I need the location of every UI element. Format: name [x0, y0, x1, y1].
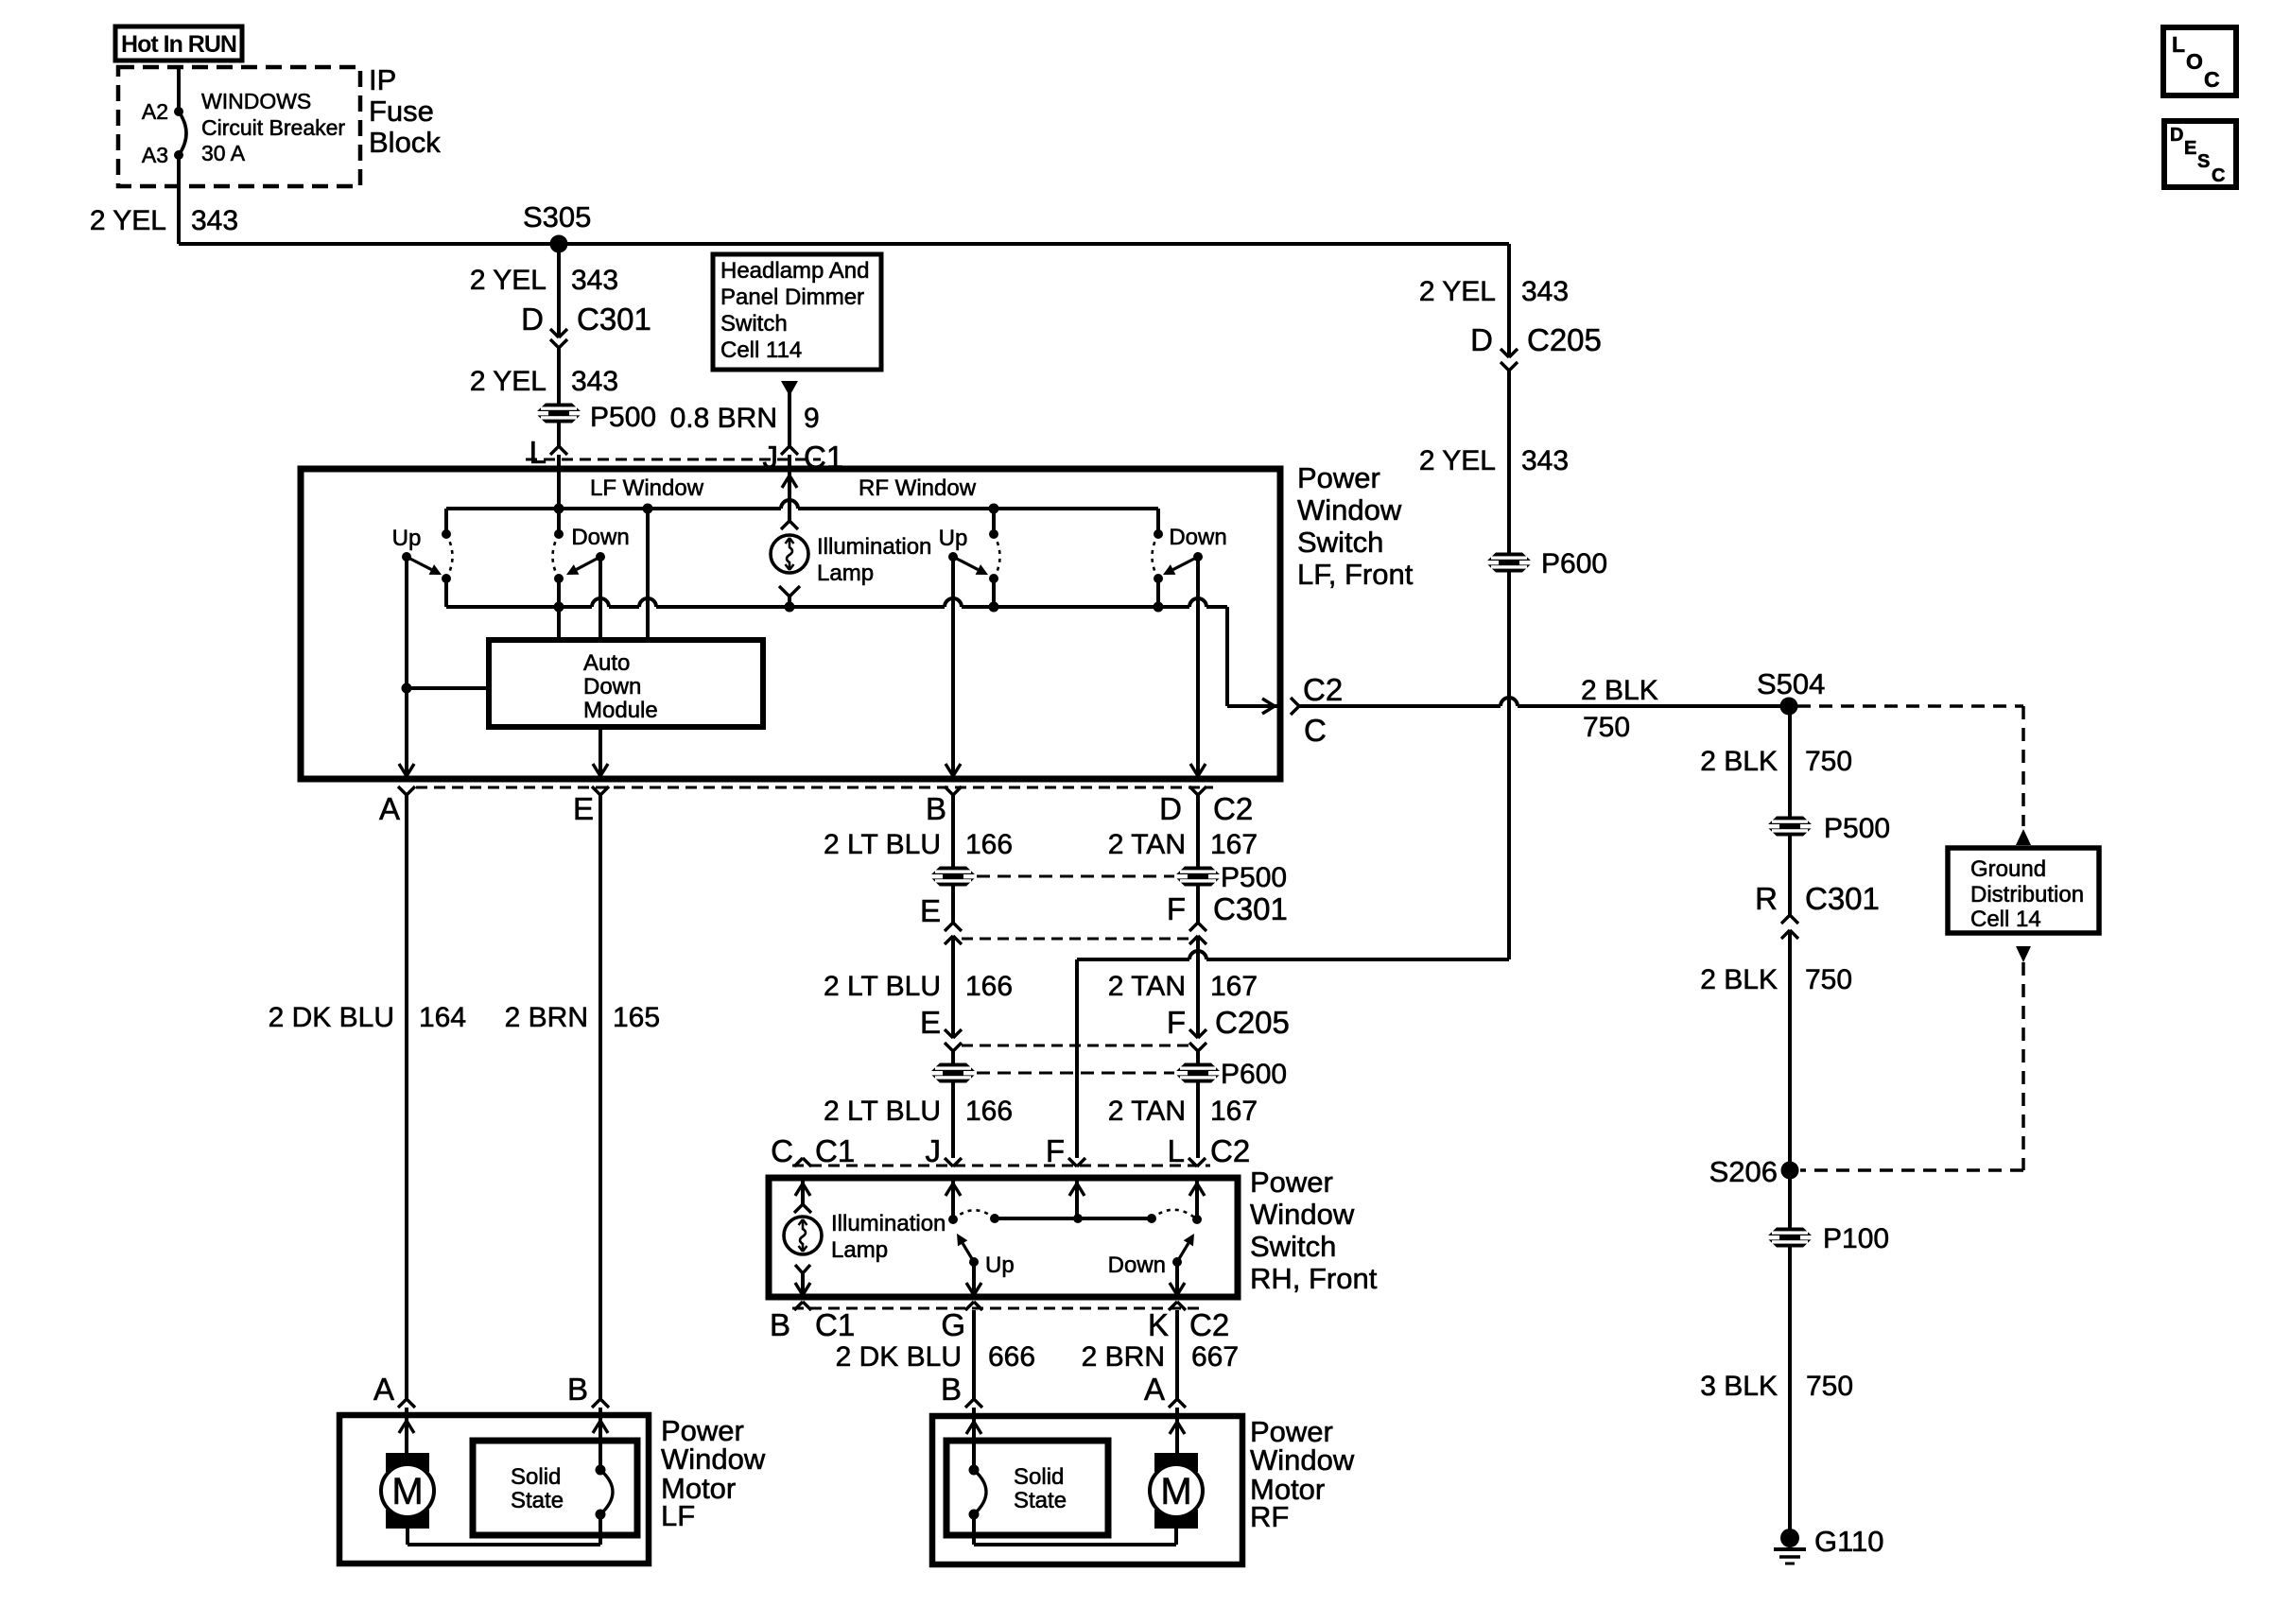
- lower rail inside LF switch: [446, 598, 1227, 613]
- Power Window Motor LF box: [339, 1415, 649, 1564]
- Power Window Switch LF Front box: [301, 469, 1280, 779]
- return wire inside RF motor box: [974, 1543, 1176, 1546]
- svg-text:30 A: 30 A: [201, 141, 246, 165]
- svg-text:Illumination: Illumination: [831, 1211, 946, 1236]
- upper feed rail inside LF switch: [446, 500, 1158, 535]
- arrow into box at pin J: [782, 475, 789, 488]
- svg-text:750: 750: [1805, 964, 1852, 995]
- svg-text:S305: S305: [523, 200, 591, 233]
- svg-text:2 TAN: 2 TAN: [1108, 1096, 1186, 1127]
- connector C301 pin D (in-line): [521, 302, 651, 348]
- svg-text:S: S: [2197, 151, 2210, 172]
- svg-text:D: D: [1159, 791, 1182, 826]
- node S206 splice: [1709, 1155, 1799, 1188]
- svg-text:Down: Down: [1108, 1253, 1166, 1278]
- wire pin B inside LF switch: [946, 557, 961, 779]
- IP Fuse Block label: [369, 63, 441, 159]
- pin C fork connector C1 of RH switch: [771, 1133, 855, 1168]
- svg-text:Circuit Breaker: Circuit Breaker: [201, 115, 345, 140]
- svg-text:C2: C2: [1189, 1307, 1229, 1342]
- svg-text:Lamp: Lamp: [831, 1237, 888, 1263]
- svg-text:Distribution: Distribution: [1970, 882, 2084, 907]
- Auto Down Module box: [489, 640, 763, 727]
- svg-text:F: F: [1167, 1005, 1186, 1040]
- switch RF-window Down (in LF switch): [1153, 525, 1227, 607]
- svg-text:343: 343: [571, 265, 618, 296]
- svg-text:Illumination: Illumination: [817, 534, 931, 560]
- svg-text:Module: Module: [583, 698, 658, 723]
- svg-text:P500: P500: [1824, 813, 1890, 844]
- svg-text:IP: IP: [369, 63, 396, 96]
- svg-text:2 LT BLU: 2 LT BLU: [824, 829, 941, 860]
- svg-text:Solid: Solid: [1014, 1464, 1064, 1490]
- svg-text:Hot In RUN: Hot In RUN: [121, 31, 236, 58]
- switch LF-window Up: [392, 526, 453, 607]
- wire 2 DK BLU 164 from pin A to LF motor: [269, 795, 466, 1399]
- grommet P500 left: [534, 402, 656, 433]
- connector C205 pins E and F (in-line): [920, 1005, 1290, 1051]
- svg-text:167: 167: [1210, 829, 1258, 860]
- svg-text:2 BRN: 2 BRN: [505, 1002, 588, 1033]
- label Power Window Switch RH, Front: [1250, 1166, 1378, 1295]
- wire to P500 grommet, 2 YEL 343: [470, 348, 618, 446]
- connector C2 pin C fork at LF switch right: [1291, 672, 1343, 748]
- grommet P600 right chain: [1484, 548, 1607, 579]
- pin L fork connector C2 of RH switch: [1168, 1133, 1251, 1168]
- dashed connector boundary below LF switch: [416, 786, 1213, 789]
- svg-text:2 BRN: 2 BRN: [1082, 1341, 1165, 1373]
- svg-text:E: E: [920, 893, 941, 928]
- svg-text:P100: P100: [1823, 1223, 1889, 1254]
- arrows into RF motor box: [966, 1422, 1185, 1434]
- svg-text:343: 343: [1521, 276, 1569, 307]
- node S305 splice: [523, 200, 591, 253]
- svg-text:O: O: [2186, 49, 2203, 74]
- pin J fork of RH switch: [926, 1133, 963, 1168]
- svg-text:F: F: [1046, 1133, 1065, 1168]
- illumination lamp RH switch: [784, 1178, 946, 1297]
- svg-text:WINDOWS: WINDOWS: [201, 89, 311, 113]
- svg-text:C: C: [2212, 165, 2225, 186]
- Headlamp And Panel Dimmer Switch box: [713, 254, 881, 370]
- svg-text:C301: C301: [1805, 881, 1880, 916]
- svg-text:State: State: [511, 1488, 564, 1513]
- svg-text:Window: Window: [1297, 493, 1402, 527]
- Power Window Motor RF box: [932, 1416, 1242, 1564]
- svg-text:750: 750: [1583, 712, 1630, 743]
- svg-text:C: C: [771, 1133, 793, 1168]
- svg-text:2 YEL: 2 YEL: [1419, 276, 1496, 307]
- wire from circuit breaker to S305 splice, label 2 YEL 343: [90, 155, 1509, 244]
- svg-text:A: A: [379, 791, 400, 826]
- wire 2 BLK 750 from LF switch C2 to S504: [1299, 675, 1789, 743]
- wire 2 BRN 667 pin K to RF motor: [1082, 1310, 1239, 1399]
- switch Up RH: [948, 1210, 1015, 1297]
- wire 2 TAN 167 mid segment: [1108, 936, 1258, 1038]
- svg-text:K: K: [1148, 1307, 1169, 1342]
- svg-text:C2: C2: [1210, 1133, 1250, 1168]
- svg-text:Down: Down: [571, 525, 629, 550]
- circuit breaker WINDOWS 30A: [142, 67, 346, 167]
- svg-text:343: 343: [571, 366, 618, 397]
- svg-text:Window: Window: [661, 1443, 766, 1476]
- svg-text:2 BLK: 2 BLK: [1700, 964, 1778, 995]
- pin A fork and label: [379, 786, 415, 826]
- return wire inside LF motor box: [408, 1543, 600, 1546]
- solid state module LF: [473, 1441, 637, 1545]
- svg-text:Ground: Ground: [1970, 856, 2046, 882]
- connector C301 pins E and F (in-line): [920, 891, 1288, 944]
- svg-text:M: M: [391, 1471, 423, 1512]
- svg-text:B: B: [926, 791, 946, 826]
- svg-text:Solid: Solid: [511, 1464, 561, 1490]
- svg-text:750: 750: [1806, 1371, 1853, 1402]
- svg-text:J: J: [926, 1133, 942, 1168]
- svg-text:343: 343: [191, 205, 238, 236]
- motor M LF: [381, 1453, 434, 1545]
- LOC reference box: [2163, 27, 2236, 95]
- wire S305 down, 2 YEL 343: [470, 244, 618, 337]
- pin K fork connector C2 below RH switch: [1148, 1302, 1229, 1342]
- pin B fork of LF motor: [567, 1372, 609, 1470]
- svg-text:R: R: [1755, 881, 1778, 916]
- svg-text:667: 667: [1191, 1341, 1239, 1373]
- dashed connector boundary above RH switch: [792, 1165, 1210, 1167]
- grommet P100: [1765, 1223, 1889, 1254]
- label 3 BLK 750: [1700, 1371, 1853, 1402]
- svg-text:G110: G110: [1814, 1525, 1884, 1558]
- svg-text:2 LT BLU: 2 LT BLU: [824, 1096, 941, 1127]
- wire 2 BLK 750 to S206: [1700, 930, 1852, 1170]
- svg-text:Window: Window: [1250, 1443, 1355, 1477]
- svg-text:C2: C2: [1213, 791, 1253, 826]
- svg-text:State: State: [1014, 1488, 1067, 1513]
- wire 2 BRN 165 from pin E to LF motor: [505, 795, 660, 1399]
- wire pin L to Down contact RH: [1189, 1178, 1205, 1219]
- wire to P100: [1788, 1170, 1792, 1538]
- svg-text:D: D: [521, 302, 544, 337]
- svg-text:167: 167: [1210, 971, 1258, 1002]
- node S504 splice: [1757, 667, 1825, 716]
- pin E fork and label: [573, 786, 609, 826]
- ground G110: [1774, 1525, 1884, 1564]
- svg-text:RF: RF: [1250, 1500, 1289, 1533]
- svg-text:A2: A2: [142, 99, 168, 124]
- svg-text:S206: S206: [1709, 1155, 1778, 1188]
- solid state module RF: [946, 1441, 1108, 1545]
- svg-text:M: M: [1160, 1471, 1191, 1512]
- svg-text:B: B: [941, 1372, 962, 1407]
- svg-text:Down: Down: [1169, 525, 1226, 550]
- svg-text:F: F: [1167, 891, 1186, 926]
- pin G fork below RH switch: [941, 1302, 982, 1342]
- wire 2 YEL 343 to P600: [1419, 371, 1569, 959]
- svg-text:P500: P500: [590, 402, 656, 433]
- switch RF-window Up (in LF switch): [939, 526, 1000, 607]
- wire from yellow chain to RH switch pin F: [1077, 951, 1509, 1158]
- svg-text:Switch: Switch: [720, 311, 788, 337]
- pin B fork of RF motor: [941, 1372, 982, 1470]
- svg-text:Cell 114: Cell 114: [720, 337, 802, 363]
- svg-text:A: A: [1144, 1372, 1165, 1407]
- wire 2 YEL 343 right branch from S305: [1419, 244, 1569, 357]
- svg-text:166: 166: [965, 829, 1013, 860]
- svg-text:2 BLK: 2 BLK: [1700, 746, 1778, 777]
- svg-text:Window: Window: [1250, 1198, 1355, 1231]
- svg-text:C301: C301: [1213, 891, 1288, 926]
- svg-text:2 BLK: 2 BLK: [1581, 675, 1658, 706]
- svg-text:B: B: [770, 1307, 790, 1342]
- svg-text:2 DK BLU: 2 DK BLU: [269, 1002, 394, 1033]
- svg-text:S504: S504: [1757, 667, 1825, 700]
- svg-text:Up: Up: [985, 1253, 1015, 1278]
- label Power Window Motor LF: [661, 1414, 766, 1532]
- svg-text:2 YEL: 2 YEL: [470, 366, 547, 397]
- dashed link S504 to Ground Distribution: [1797, 706, 2031, 845]
- wire 2 DK BLU 666 pin G to RF motor: [836, 1310, 1035, 1399]
- svg-text:Switch: Switch: [1250, 1230, 1336, 1263]
- svg-text:D: D: [1470, 322, 1493, 357]
- svg-text:Power: Power: [1250, 1166, 1333, 1199]
- wire pin J to Up contact RH: [946, 1178, 961, 1219]
- svg-text:L: L: [1168, 1133, 1185, 1168]
- svg-text:L: L: [2172, 32, 2185, 57]
- svg-text:LF, Front: LF, Front: [1297, 558, 1414, 591]
- IP Fuse Block dashed outline: [118, 67, 360, 186]
- svg-text:2 YEL: 2 YEL: [1419, 445, 1496, 476]
- svg-text:P600: P600: [1221, 1059, 1287, 1090]
- wire pin A from Up switch through box bottom: [399, 557, 489, 779]
- svg-text:E: E: [2184, 138, 2196, 159]
- svg-text:B: B: [567, 1372, 588, 1407]
- svg-text:C: C: [2204, 67, 2220, 92]
- pin A fork of LF motor: [373, 1372, 415, 1456]
- svg-text:165: 165: [613, 1002, 660, 1033]
- dashed link Ground Distribution to S206: [1800, 946, 2031, 1170]
- svg-text:C2: C2: [1303, 672, 1343, 707]
- svg-text:C205: C205: [1215, 1005, 1290, 1040]
- Hot In RUN feed label box: [115, 26, 242, 60]
- svg-text:Lamp: Lamp: [817, 561, 874, 586]
- pin D fork and label, connector C2: [1159, 786, 1253, 826]
- svg-text:Power: Power: [1297, 461, 1380, 494]
- svg-text:P600: P600: [1541, 548, 1607, 579]
- wire from dimmer switch, 0.8 BRN 9: [670, 381, 820, 446]
- svg-text:E: E: [920, 1005, 941, 1040]
- svg-text:C205: C205: [1527, 322, 1602, 357]
- switch LF-window Down: [553, 525, 630, 607]
- dashed connector C1 boundary at LF switch top: [526, 458, 821, 461]
- svg-text:2 DK BLU: 2 DK BLU: [836, 1341, 962, 1373]
- svg-text:C1: C1: [815, 1133, 855, 1168]
- connector C301 pin R (in-line): [1755, 881, 1880, 939]
- svg-text:Switch: Switch: [1297, 526, 1383, 559]
- wire to C2 pin C exit of LF switch: [1227, 607, 1280, 714]
- svg-text:Cell 14: Cell 14: [1970, 907, 2041, 932]
- pin L of LF switch connector C1: [529, 435, 567, 509]
- svg-text:LF: LF: [661, 1499, 695, 1532]
- svg-text:L: L: [529, 435, 547, 470]
- label Power Window Motor RF: [1250, 1415, 1355, 1533]
- svg-text:2 YEL: 2 YEL: [470, 265, 547, 296]
- Power Window Switch RH Front box: [769, 1178, 1238, 1297]
- svg-text:2 TAN: 2 TAN: [1108, 971, 1186, 1002]
- svg-text:E: E: [573, 791, 594, 826]
- svg-text:LF Window: LF Window: [590, 475, 704, 501]
- pin J of LF switch connector C1: [763, 440, 844, 521]
- pin B fork and label: [926, 786, 962, 826]
- svg-text:Up: Up: [392, 526, 422, 551]
- wire pin D inside LF switch: [1190, 557, 1206, 779]
- wire 2 LT BLU 166 pin B down: [824, 795, 1013, 923]
- svg-text:164: 164: [419, 1002, 466, 1033]
- svg-text:Panel Dimmer: Panel Dimmer: [720, 285, 864, 310]
- connector C205 pin D (in-line right): [1470, 322, 1602, 371]
- label Power Window Switch LF, Front: [1297, 461, 1414, 591]
- svg-text:A: A: [373, 1372, 394, 1407]
- wire pin E from Auto Down Module: [593, 727, 608, 779]
- labels 2 LT BLU 166 and 2 TAN 167 lower segment: [824, 1096, 1258, 1127]
- svg-text:D: D: [2170, 125, 2183, 146]
- svg-text:Block: Block: [369, 126, 441, 159]
- common bar RH switch: [990, 1214, 1156, 1223]
- svg-text:G: G: [941, 1307, 965, 1342]
- svg-text:343: 343: [1521, 445, 1569, 476]
- svg-text:0.8 BRN: 0.8 BRN: [670, 403, 777, 434]
- pin F fork of RH switch: [1046, 1133, 1085, 1168]
- svg-text:A3: A3: [142, 143, 168, 167]
- svg-text:Down: Down: [583, 674, 641, 700]
- wire 2 TAN 167 pin D down: [1108, 795, 1258, 923]
- svg-text:RF Window: RF Window: [859, 475, 977, 501]
- grommet P600 pair on B and D wires: [928, 1051, 1287, 1158]
- illumination lamp LF switch: [771, 521, 931, 608]
- svg-text:RH, Front: RH, Front: [1250, 1262, 1378, 1295]
- svg-text:167: 167: [1210, 1096, 1258, 1127]
- grommet P500 right chain: [1765, 813, 1890, 844]
- wire 2 LT BLU 166 mid segment: [824, 936, 1013, 1038]
- switch Down RH: [1108, 1210, 1202, 1297]
- svg-text:P500: P500: [1221, 862, 1287, 893]
- svg-text:2 YEL: 2 YEL: [90, 205, 166, 236]
- pin B fork connector C1 below RH switch: [770, 1302, 855, 1342]
- svg-text:Up: Up: [939, 526, 968, 551]
- motor M RF: [1150, 1453, 1203, 1545]
- svg-text:666: 666: [988, 1341, 1035, 1373]
- wire pin F to common bar RH: [1069, 1178, 1084, 1218]
- svg-text:C301: C301: [577, 302, 651, 337]
- DESC reference box: [2164, 121, 2236, 187]
- pin A fork of RF motor: [1144, 1372, 1186, 1456]
- wire 2 BLK 750 S504 down: [1700, 706, 1852, 915]
- dashed connector boundary below RH switch: [792, 1307, 1201, 1310]
- svg-text:C: C: [1304, 713, 1327, 748]
- svg-text:Headlamp And: Headlamp And: [720, 258, 869, 284]
- svg-text:2 TAN: 2 TAN: [1108, 829, 1186, 860]
- Ground Distribution Cell 14 box: [1948, 848, 2099, 933]
- wires into Auto Down Module: [559, 509, 648, 640]
- svg-text:750: 750: [1805, 746, 1852, 777]
- svg-text:C1: C1: [815, 1307, 855, 1342]
- svg-text:Fuse: Fuse: [369, 95, 434, 128]
- svg-text:2 LT BLU: 2 LT BLU: [824, 971, 941, 1002]
- svg-text:166: 166: [965, 971, 1013, 1002]
- svg-text:3 BLK: 3 BLK: [1700, 1371, 1778, 1402]
- svg-text:Auto: Auto: [583, 650, 630, 676]
- grommet P500 pair on B and D wires: [928, 862, 1287, 893]
- svg-text:166: 166: [965, 1096, 1013, 1127]
- svg-text:9: 9: [804, 403, 820, 434]
- arrows into LF motor box: [399, 1421, 608, 1433]
